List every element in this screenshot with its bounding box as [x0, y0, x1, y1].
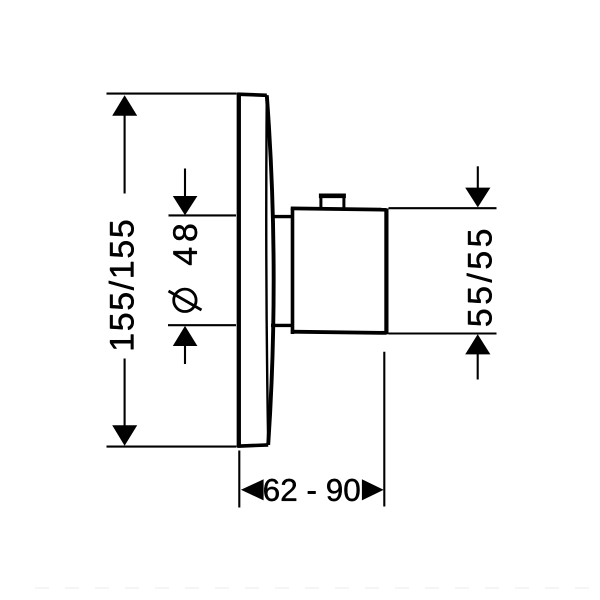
- neck top edge: [271, 215, 293, 218]
- escutcheon plate bottom edge: [237, 445, 268, 446]
- diameter dimension lower extension line: [168, 324, 236, 326]
- left dimension upper arrowhead: [112, 95, 137, 116]
- bottom dimension left arrowhead: [241, 479, 264, 500]
- bottom dimension left extension line: [238, 451, 240, 508]
- handle left edge: [291, 208, 295, 335]
- diameter dimension upper arrowhead: [173, 196, 198, 215]
- label diameter sign slash: [169, 291, 202, 310]
- escutcheon plate top edge: [237, 94, 267, 95]
- label 55/55: [467, 230, 492, 326]
- handle bottom edge: [291, 332, 387, 333]
- handle top edge: [291, 208, 387, 209]
- label 62 - 90: [264, 479, 359, 501]
- escutcheon plate face rim arc: [266, 95, 268, 445]
- label 48: [173, 225, 197, 265]
- right dimension upper arrowhead: [465, 188, 490, 208]
- diameter dimension lower arrowhead: [173, 326, 198, 346]
- label 155/155: [109, 221, 134, 349]
- escutcheon plate left edge: [237, 93, 241, 447]
- left dimension bottom extension line: [107, 446, 237, 448]
- left dimension line lower segment: [124, 359, 126, 428]
- right dimension lower arrowhead: [465, 334, 490, 354]
- faint page fold dashed line: [35, 587, 600, 589]
- button right side: [342, 195, 345, 209]
- left dimension lower arrowhead: [112, 425, 137, 446]
- escutcheon plate front silhouette arc: [267, 95, 274, 445]
- right dimension lower tail: [477, 354, 479, 380]
- neck bottom edge: [271, 324, 293, 327]
- left dimension top extension line: [107, 93, 237, 95]
- button left side: [319, 195, 322, 209]
- diameter dimension upper tail: [184, 169, 186, 198]
- left dimension line upper segment: [124, 115, 126, 194]
- right dimension upper tail: [477, 166, 479, 189]
- diameter dimension upper extension line: [169, 214, 237, 216]
- right dimension bottom extension line: [389, 332, 497, 334]
- bottom dimension right extension line: [383, 352, 385, 507]
- diameter dimension lower tail: [184, 346, 186, 365]
- handle right edge: [384, 209, 388, 335]
- bottom dimension right arrowhead: [362, 479, 384, 500]
- right dimension top extension line: [389, 207, 497, 209]
- label diameter sign circle: [174, 289, 196, 311]
- button top edge: [319, 194, 346, 199]
